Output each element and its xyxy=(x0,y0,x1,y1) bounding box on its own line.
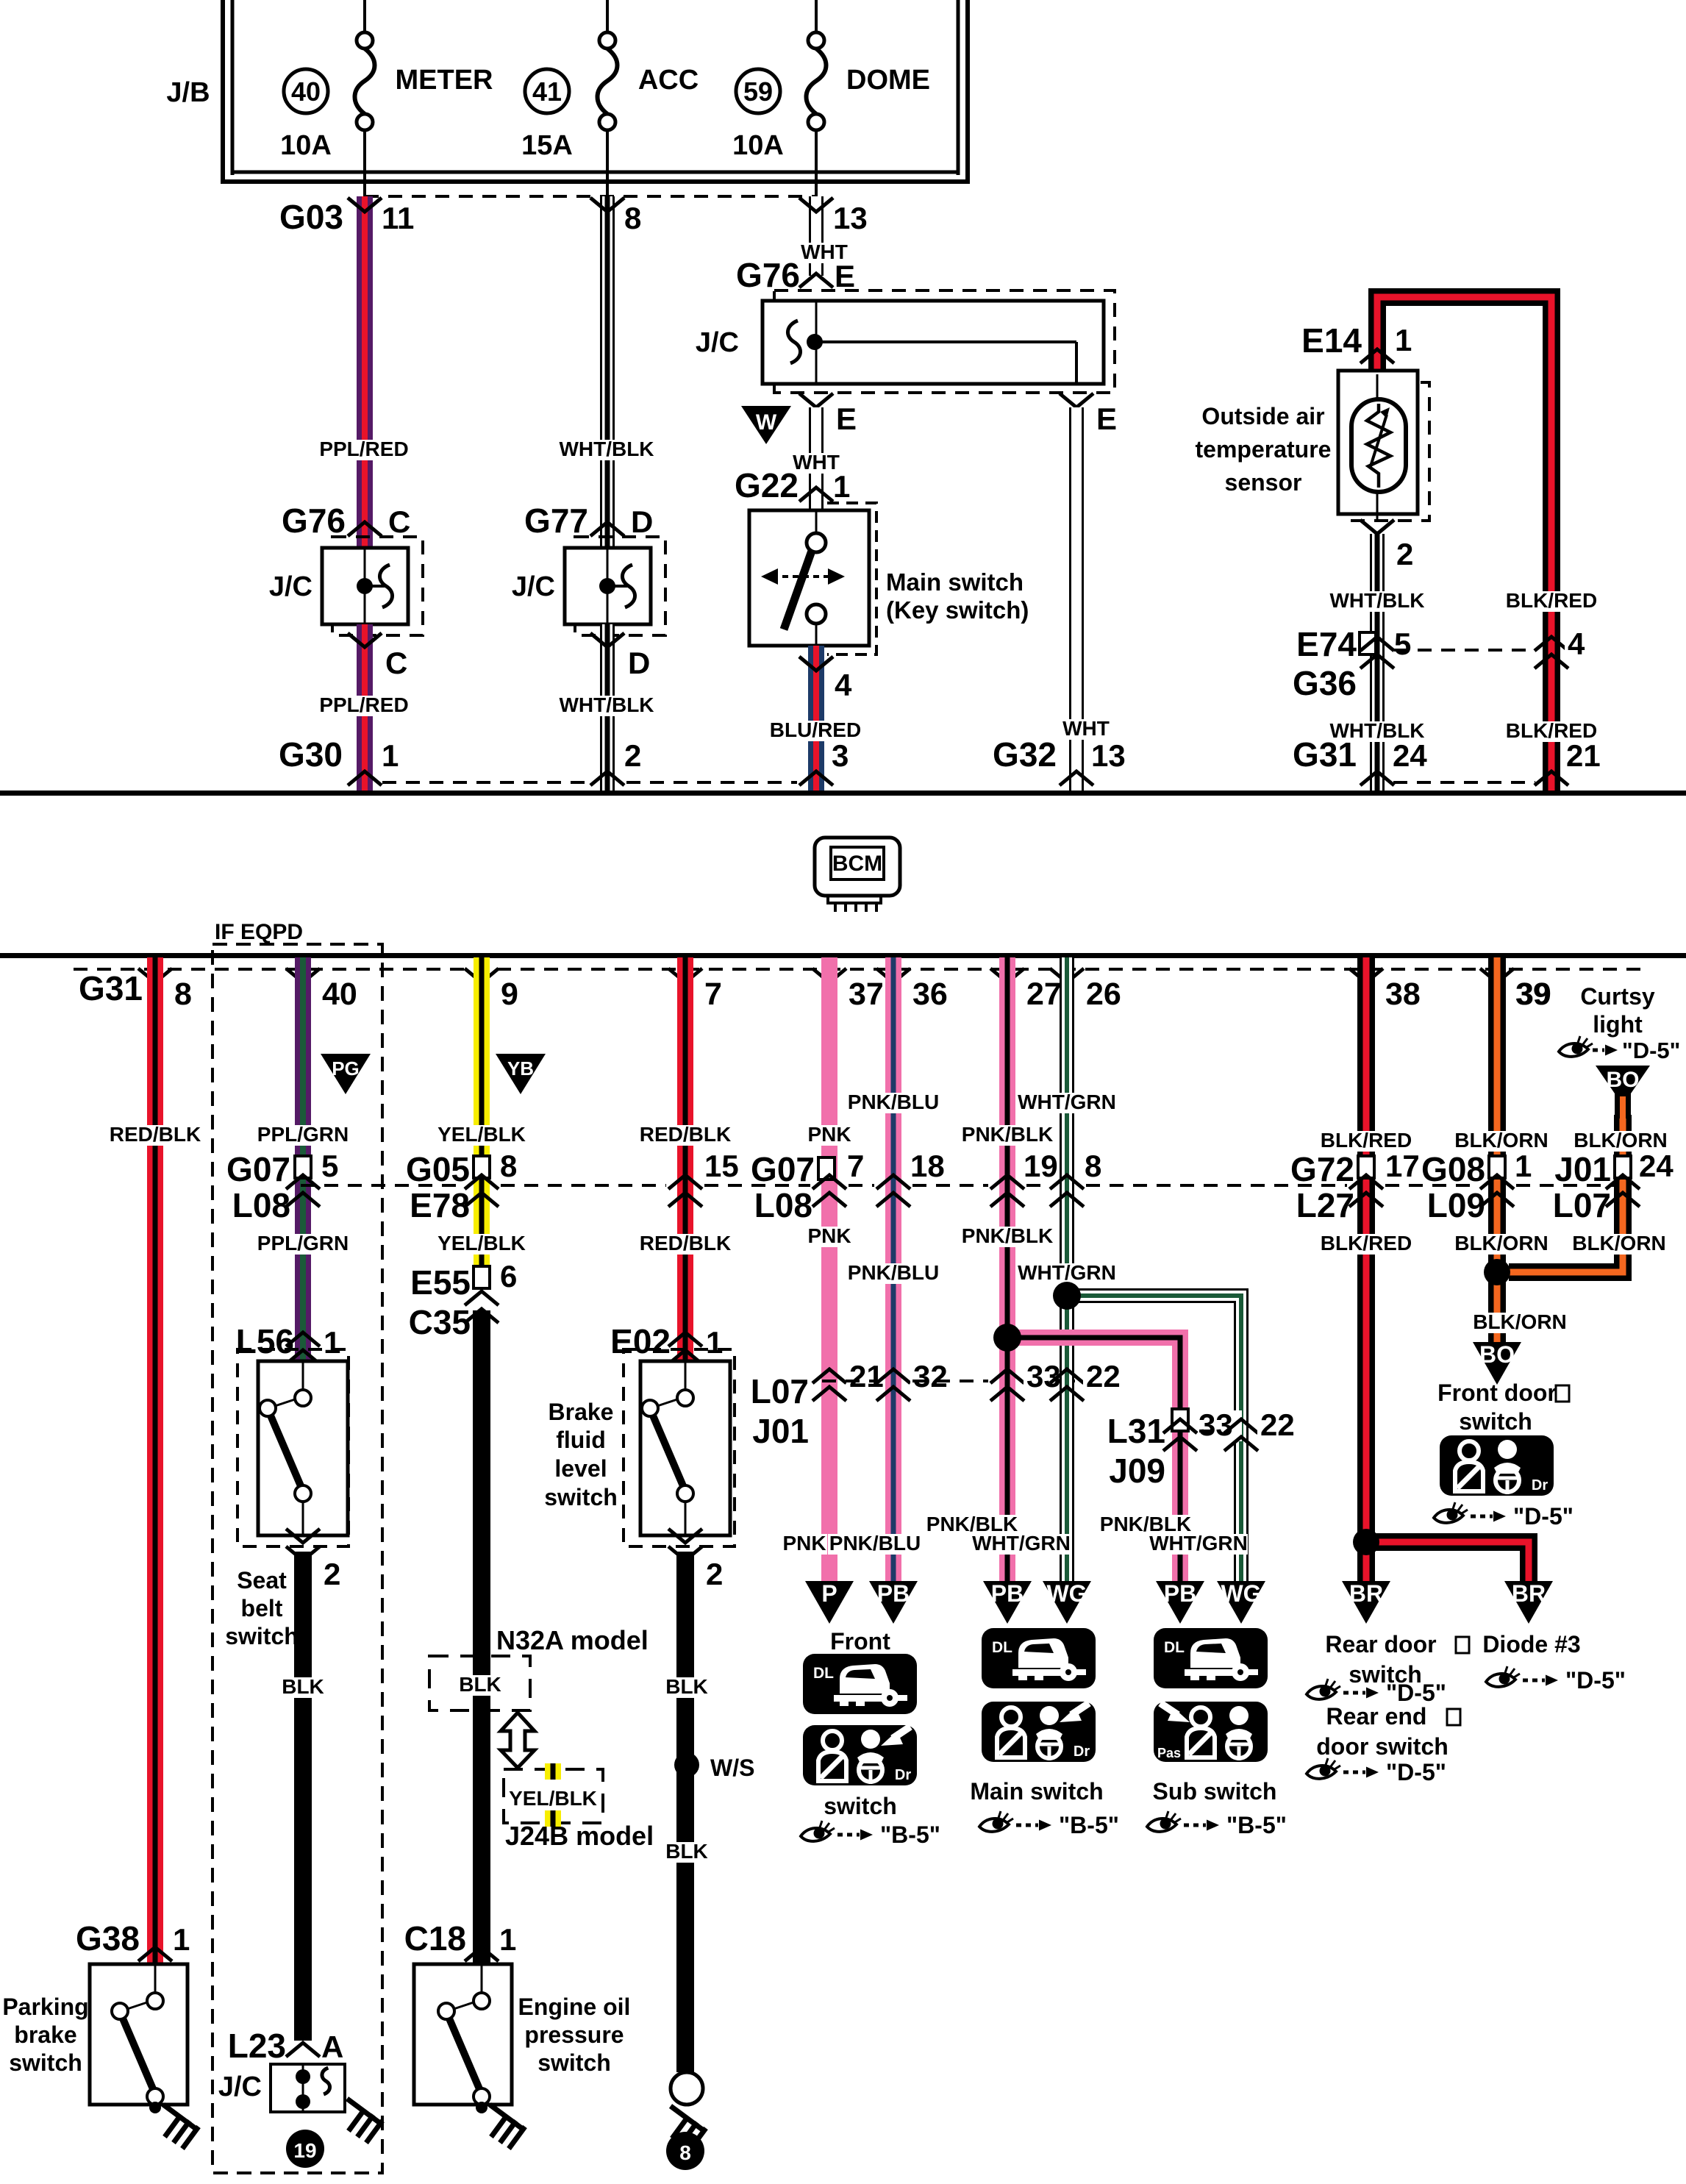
branch wire PNK/BLK to sub switch xyxy=(1007,1338,1180,1581)
wire BLK/RED BCM-38 to BR with branch to diode xyxy=(1357,957,1375,1581)
svg-text:PNK/BLU: PNK/BLU xyxy=(848,1091,939,1113)
svg-text:PNK/BLU: PNK/BLU xyxy=(829,1532,921,1555)
destination arrow BO (front door switch) xyxy=(1473,1342,1521,1385)
svg-text:sensor: sensor xyxy=(1225,469,1302,496)
wire PNK/BLU BCM-36 to PB xyxy=(885,957,901,1581)
option swap arrow xyxy=(501,1713,535,1768)
svg-text:L27: L27 xyxy=(1296,1186,1354,1224)
destination arrow WG (main switch) xyxy=(1043,1581,1091,1624)
wire BLK/RED battery loop to E14-1 xyxy=(1377,297,1551,791)
svg-text:E02: E02 xyxy=(610,1322,671,1360)
svg-text:WHT/GRN: WHT/GRN xyxy=(972,1532,1071,1555)
svg-text:BLK: BLK xyxy=(665,1840,708,1863)
svg-text:C: C xyxy=(385,646,407,680)
destination arrow WG (sub switch) xyxy=(1217,1581,1265,1624)
svg-text:37: 37 xyxy=(849,977,884,1012)
junction splice PNK/BLK xyxy=(993,1324,1021,1352)
destination arrow BR (diode 3) xyxy=(1504,1581,1553,1624)
wire RED/BLK BCM-7 to E02-1 xyxy=(677,957,693,1360)
svg-text:RED/BLK: RED/BLK xyxy=(640,1232,731,1255)
fuse 41 ACC 15A xyxy=(606,0,609,32)
svg-text:10A: 10A xyxy=(732,130,784,161)
svg-text:PNK/BLK: PNK/BLK xyxy=(962,1224,1053,1247)
svg-text:BR: BR xyxy=(1512,1580,1546,1607)
chevron overdraw G03/G30 rows xyxy=(348,198,382,212)
wire BLK/RED label xyxy=(1504,591,1599,612)
svg-text:8: 8 xyxy=(174,977,192,1012)
svg-text:22: 22 xyxy=(1086,1359,1121,1393)
svg-text:BO: BO xyxy=(1479,1341,1515,1368)
svg-text:PPL/RED: PPL/RED xyxy=(319,693,408,716)
svg-text:"D-5": "D-5" xyxy=(1565,1667,1626,1694)
svg-text:"B-5": "B-5" xyxy=(1226,1812,1287,1838)
svg-text:WHT/GRN: WHT/GRN xyxy=(1018,1261,1116,1284)
svg-text:switch: switch xyxy=(1459,1408,1532,1435)
svg-text:DOME: DOME xyxy=(846,65,930,96)
svg-text:1: 1 xyxy=(382,738,399,773)
svg-text:21: 21 xyxy=(849,1359,884,1393)
wire WHT/BLK G77-D to G30-2 xyxy=(600,624,615,791)
svg-text:YEL/BLK: YEL/BLK xyxy=(437,1123,526,1146)
svg-text:BLK/RED: BLK/RED xyxy=(1321,1232,1412,1255)
svg-text:1: 1 xyxy=(1515,1149,1532,1183)
ground 19 xyxy=(286,2130,324,2168)
section divider line 1 xyxy=(0,791,1686,796)
svg-text:WG: WG xyxy=(1046,1580,1087,1607)
svg-text:24: 24 xyxy=(1639,1149,1674,1183)
svg-text:level: level xyxy=(554,1455,607,1482)
svg-text:YB: YB xyxy=(507,1057,534,1079)
svg-text:10A: 10A xyxy=(280,130,332,161)
destination arrow PB (sub switch) xyxy=(1156,1581,1204,1624)
svg-text:J/C: J/C xyxy=(218,2071,262,2102)
wire BLK L56-2 to L23-A xyxy=(294,1552,312,2041)
svg-text:2: 2 xyxy=(1396,537,1413,571)
svg-text:PNK/BLU: PNK/BLU xyxy=(848,1261,939,1284)
svg-text:belt: belt xyxy=(241,1595,283,1621)
svg-text:"B-5": "B-5" xyxy=(1059,1812,1119,1838)
svg-text:G31: G31 xyxy=(1293,735,1357,774)
svg-text:pressure: pressure xyxy=(524,2021,624,2048)
splice W/S xyxy=(674,1752,699,1777)
svg-text:13: 13 xyxy=(1091,738,1126,773)
svg-text:"D-5": "D-5" xyxy=(1513,1503,1574,1530)
wire RED/BLK BCM-8 to G38-1 xyxy=(147,957,163,1963)
svg-text:G31: G31 xyxy=(79,969,143,1007)
source arrow BO (curtsy light) xyxy=(1596,1066,1650,1118)
connector G31 row below BCM xyxy=(74,968,1647,971)
svg-text:switch: switch xyxy=(824,1793,897,1819)
svg-text:26: 26 xyxy=(1086,977,1121,1012)
svg-text:G38: G38 xyxy=(76,1919,140,1958)
svg-text:L31: L31 xyxy=(1107,1412,1165,1450)
svg-text:L08: L08 xyxy=(232,1186,290,1224)
wire WHT fuse59 to G76-E xyxy=(809,196,824,276)
junction splice BLK/ORN xyxy=(1484,1259,1510,1285)
svg-text:G30: G30 xyxy=(279,735,343,774)
wire PPL/GRN BCM-40 to L56-1 xyxy=(295,957,311,1360)
svg-text:"B-5": "B-5" xyxy=(880,1821,940,1848)
connector pin 33 xyxy=(990,1369,1024,1383)
svg-text:1: 1 xyxy=(833,469,850,504)
svg-text:L56: L56 xyxy=(236,1322,294,1360)
svg-text:Seat: Seat xyxy=(237,1567,287,1594)
svg-text:G22: G22 xyxy=(735,466,799,504)
svg-text:Rear end: Rear end xyxy=(1326,1703,1427,1730)
svg-text:J/C: J/C xyxy=(269,571,312,602)
connector pin 22 xyxy=(1050,1369,1084,1383)
svg-text:21: 21 xyxy=(1566,738,1601,773)
svg-text:PPL/GRN: PPL/GRN xyxy=(257,1123,349,1146)
connector pin 18 xyxy=(876,1175,910,1189)
svg-text:switch: switch xyxy=(537,2049,611,2076)
svg-text:Dr: Dr xyxy=(895,1767,911,1783)
svg-text:E78: E78 xyxy=(410,1186,470,1224)
svg-text:Diode #3: Diode #3 xyxy=(1482,1631,1580,1657)
wire BLU/RED G22-4 to G30-3 xyxy=(808,646,824,791)
svg-text:33: 33 xyxy=(1199,1407,1233,1442)
svg-text:Main switch: Main switch xyxy=(970,1778,1103,1805)
svg-text:WHT: WHT xyxy=(1062,717,1110,740)
destination arrow BR (rear door switch) xyxy=(1342,1581,1390,1624)
svg-text:IF EQPD: IF EQPD xyxy=(215,920,303,944)
svg-text:BLK: BLK xyxy=(459,1673,501,1696)
svg-text:2: 2 xyxy=(324,1557,340,1591)
svg-text:L07: L07 xyxy=(1553,1186,1611,1224)
svg-text:switch: switch xyxy=(9,2049,82,2076)
svg-text:Dr: Dr xyxy=(1074,1744,1090,1760)
connector pin 15 xyxy=(701,1152,748,1182)
svg-text:switch: switch xyxy=(544,1484,618,1510)
svg-text:J/C: J/C xyxy=(512,571,555,602)
svg-text:C35: C35 xyxy=(409,1303,471,1341)
svg-text:Dr: Dr xyxy=(1532,1477,1548,1494)
svg-text:N32A model: N32A model xyxy=(496,1625,649,1655)
svg-text:RED/BLK: RED/BLK xyxy=(640,1123,731,1146)
svg-text:WHT/GRN: WHT/GRN xyxy=(1018,1091,1116,1113)
svg-text:G07: G07 xyxy=(751,1150,815,1188)
svg-text:J/C: J/C xyxy=(696,327,739,358)
svg-text:PPL/RED: PPL/RED xyxy=(319,438,408,460)
svg-text:Brake: Brake xyxy=(549,1399,614,1425)
svg-text:PB: PB xyxy=(877,1580,910,1607)
wire WHT G76-E to G22-1 xyxy=(809,407,824,510)
svg-text:15: 15 xyxy=(704,1149,739,1183)
svg-text:J01: J01 xyxy=(752,1412,809,1450)
svg-text:PPL/GRN: PPL/GRN xyxy=(257,1232,349,1255)
svg-text:Outside air: Outside air xyxy=(1201,403,1324,429)
svg-text:8: 8 xyxy=(500,1149,517,1183)
svg-text:E: E xyxy=(1096,402,1117,436)
svg-text:7: 7 xyxy=(847,1149,864,1183)
wire PNK/BLK BCM-27 to PB with branch xyxy=(999,957,1015,1581)
svg-text:door switch: door switch xyxy=(1316,1733,1449,1760)
branch wire WHT/GRN to sub switch xyxy=(1067,1296,1241,1581)
svg-text:(Key switch): (Key switch) xyxy=(886,596,1029,624)
svg-text:8: 8 xyxy=(624,201,641,235)
svg-text:11: 11 xyxy=(382,201,414,235)
svg-text:DL: DL xyxy=(813,1665,834,1682)
svg-text:PNK: PNK xyxy=(807,1123,851,1146)
svg-text:E55: E55 xyxy=(410,1263,471,1302)
svg-text:9: 9 xyxy=(501,977,518,1012)
svg-text:BLK/ORN: BLK/ORN xyxy=(1574,1129,1668,1152)
svg-text:J24B model: J24B model xyxy=(505,1821,654,1851)
svg-text:Front door: Front door xyxy=(1437,1380,1557,1406)
svg-text:switch: switch xyxy=(225,1623,299,1649)
svg-text:1: 1 xyxy=(173,1922,190,1957)
svg-text:fluid: fluid xyxy=(556,1427,606,1453)
dashed connector row L07/J01 xyxy=(822,1380,874,1382)
dashed connector row G07-L08 / G72-L27 / G08-L09 / J01-L07 xyxy=(301,1184,462,1187)
svg-text:"D-5": "D-5" xyxy=(1386,1759,1446,1785)
wire PNK BCM-37 to P xyxy=(821,957,837,1581)
svg-text:PG: PG xyxy=(332,1057,360,1079)
svg-text:WHT/GRN: WHT/GRN xyxy=(1149,1532,1248,1555)
svg-text:38: 38 xyxy=(1385,977,1421,1012)
main switch icons xyxy=(982,1628,1096,1688)
svg-text:"D-5": "D-5" xyxy=(1622,1038,1680,1063)
svg-text:YEL/BLK: YEL/BLK xyxy=(437,1232,526,1255)
BCM module xyxy=(815,838,900,896)
wire WHT/BLK fuse41 to G77-D xyxy=(600,196,615,546)
svg-text:BR: BR xyxy=(1349,1580,1383,1607)
svg-text:C: C xyxy=(388,504,410,539)
svg-text:1: 1 xyxy=(499,1922,516,1957)
svg-text:41: 41 xyxy=(532,76,562,107)
svg-text:Curtsy: Curtsy xyxy=(1580,983,1655,1010)
svg-text:D: D xyxy=(631,504,653,539)
svg-text:BLK/RED: BLK/RED xyxy=(1506,589,1597,612)
svg-text:1: 1 xyxy=(324,1325,340,1360)
svg-text:40: 40 xyxy=(291,76,321,107)
svg-text:13: 13 xyxy=(833,201,868,235)
wire PPL/RED G76-C to G30-1 xyxy=(357,624,373,791)
svg-text:Front: Front xyxy=(830,1628,890,1655)
svg-text:G08: G08 xyxy=(1421,1150,1485,1188)
junction block J/B xyxy=(221,0,225,184)
svg-text:J09: J09 xyxy=(1109,1452,1165,1490)
connector pin 19 xyxy=(990,1175,1024,1189)
svg-text:WHT/BLK: WHT/BLK xyxy=(559,693,654,716)
svg-text:Pas: Pas xyxy=(1157,1746,1181,1760)
sub switch icons xyxy=(1154,1628,1268,1688)
svg-text:BCM: BCM xyxy=(832,852,882,876)
svg-text:PNK: PNK xyxy=(807,1224,851,1247)
svg-text:Parking: Parking xyxy=(2,1994,88,2020)
destination arrow PG xyxy=(321,1054,371,1094)
wire BLK/ORN from curtsy light feed xyxy=(1509,1115,1623,1272)
svg-text:J/B: J/B xyxy=(166,77,210,108)
wire WHT/BLK E14-2 to G31-24 xyxy=(1370,534,1385,791)
svg-text:17: 17 xyxy=(1385,1149,1420,1183)
wire BLK/ORN BCM-39 to BO xyxy=(1488,957,1506,1342)
wire WHT G76-E to G32-13 xyxy=(1069,407,1084,791)
svg-text:G05: G05 xyxy=(406,1150,470,1188)
option note J24B model / YEL/BLK xyxy=(504,1769,603,1823)
svg-text:BLK/ORN: BLK/ORN xyxy=(1454,1129,1549,1152)
svg-text:D: D xyxy=(628,646,650,680)
svg-text:G07: G07 xyxy=(226,1150,290,1188)
svg-text:G36: G36 xyxy=(1293,664,1357,702)
svg-text:Sub switch: Sub switch xyxy=(1153,1778,1277,1805)
svg-text:15A: 15A xyxy=(521,130,573,161)
wire YEL/BLK BCM-9 to E55/C35 xyxy=(474,957,490,1290)
svg-text:brake: brake xyxy=(14,2021,76,2048)
fuse 40 METER 10A xyxy=(363,0,366,32)
svg-text:19: 19 xyxy=(1024,1149,1058,1183)
svg-text:RED/BLK: RED/BLK xyxy=(110,1123,201,1146)
svg-text:PB: PB xyxy=(991,1580,1024,1607)
svg-text:G76: G76 xyxy=(282,502,346,540)
branch wire BLK/RED to diode 3 xyxy=(1366,1542,1529,1581)
dashed connector line G30 xyxy=(382,781,588,784)
svg-text:YEL/BLK: YEL/BLK xyxy=(509,1787,597,1810)
svg-text:Engine oil: Engine oil xyxy=(518,1994,631,2020)
svg-text:1: 1 xyxy=(706,1325,723,1360)
destination arrow PB (front switch) xyxy=(869,1581,918,1624)
svg-text:DL: DL xyxy=(992,1639,1012,1656)
wire BLK E55/C35 to C18-1 xyxy=(473,1310,490,1963)
svg-text:Main switch: Main switch xyxy=(886,568,1024,596)
svg-text:4: 4 xyxy=(1568,627,1585,661)
svg-text:"D-5": "D-5" xyxy=(1386,1680,1446,1706)
svg-text:BLK/ORN: BLK/ORN xyxy=(1572,1232,1666,1255)
svg-text:32: 32 xyxy=(913,1359,948,1393)
svg-text:P: P xyxy=(821,1580,837,1607)
junction splice WHT/GRN xyxy=(1053,1282,1081,1310)
svg-text:E74: E74 xyxy=(1296,625,1357,663)
svg-text:G76: G76 xyxy=(736,256,800,294)
svg-text:C18: C18 xyxy=(404,1919,466,1958)
svg-text:METER: METER xyxy=(396,65,493,96)
svg-text:E: E xyxy=(835,259,855,293)
svg-text:27: 27 xyxy=(1026,977,1062,1012)
svg-text:BLK/ORN: BLK/ORN xyxy=(1473,1310,1567,1333)
svg-text:PB: PB xyxy=(1164,1580,1196,1607)
svg-text:light: light xyxy=(1593,1011,1643,1038)
connector pin 32 xyxy=(876,1369,910,1383)
svg-text:Rear door: Rear door xyxy=(1325,1631,1436,1657)
svg-text:BO: BO xyxy=(1607,1068,1640,1092)
svg-text:L07: L07 xyxy=(751,1372,809,1410)
destination arrow W xyxy=(741,406,791,444)
svg-text:19: 19 xyxy=(293,2139,316,2162)
svg-text:8: 8 xyxy=(679,2141,691,2164)
svg-text:G72: G72 xyxy=(1290,1150,1354,1188)
svg-text:36: 36 xyxy=(912,977,948,1012)
svg-text:G03: G03 xyxy=(279,198,343,236)
svg-text:6: 6 xyxy=(500,1259,517,1293)
svg-text:4: 4 xyxy=(835,668,852,702)
svg-text:7: 7 xyxy=(704,977,722,1012)
svg-text:L09: L09 xyxy=(1427,1186,1485,1224)
svg-text:2: 2 xyxy=(624,738,641,773)
ground 8 xyxy=(671,2072,703,2105)
wire PPL/RED fuse40 to G76-C xyxy=(357,196,373,546)
svg-text:L08: L08 xyxy=(754,1186,812,1224)
connector pin 8 xyxy=(1050,1175,1084,1189)
svg-text:PNK: PNK xyxy=(782,1532,826,1555)
connector G03 row xyxy=(365,195,816,198)
svg-text:40: 40 xyxy=(322,977,357,1012)
svg-text:1: 1 xyxy=(1395,323,1412,357)
wire WHT/GRN BCM-26 to WG with branch xyxy=(1060,957,1074,1581)
junction splice BLK/RED xyxy=(1353,1529,1379,1555)
svg-text:J01: J01 xyxy=(1554,1150,1611,1188)
svg-text:L23: L23 xyxy=(228,2027,286,2065)
svg-text:24: 24 xyxy=(1393,738,1427,773)
svg-text:3: 3 xyxy=(832,738,849,773)
svg-text:2: 2 xyxy=(706,1557,723,1591)
section divider line 2 xyxy=(0,953,1686,958)
svg-text:E14: E14 xyxy=(1301,321,1362,360)
svg-text:PNK/BLK: PNK/BLK xyxy=(962,1123,1053,1146)
destination arrow P (front switch) xyxy=(805,1581,854,1624)
svg-text:G32: G32 xyxy=(993,735,1057,774)
svg-text:DL: DL xyxy=(1164,1639,1185,1656)
svg-text:BLK: BLK xyxy=(282,1675,324,1698)
svg-text:BLK/ORN: BLK/ORN xyxy=(1454,1232,1549,1255)
svg-text:5: 5 xyxy=(1394,627,1411,661)
svg-text:WHT/BLK: WHT/BLK xyxy=(559,438,654,460)
svg-text:WHT/BLK: WHT/BLK xyxy=(1329,589,1424,612)
svg-text:22: 22 xyxy=(1260,1407,1295,1442)
svg-text:18: 18 xyxy=(910,1149,945,1183)
svg-text:39: 39 xyxy=(1515,977,1551,1012)
destination arrow YB xyxy=(496,1054,546,1094)
destination arrow PB (main switch) xyxy=(983,1581,1032,1624)
svg-text:A: A xyxy=(321,2030,343,2064)
wire BLK E02-2 to ground 8 xyxy=(676,1552,694,2072)
svg-text:8: 8 xyxy=(1085,1149,1101,1183)
svg-text:59: 59 xyxy=(743,76,773,107)
svg-text:W: W xyxy=(756,410,777,435)
svg-text:WG: WG xyxy=(1221,1580,1261,1607)
svg-text:E: E xyxy=(836,402,857,436)
svg-text:5: 5 xyxy=(321,1149,338,1183)
svg-text:BLK: BLK xyxy=(665,1675,708,1698)
svg-text:G77: G77 xyxy=(524,502,588,540)
svg-text:ACC: ACC xyxy=(638,65,699,96)
front door switch icon xyxy=(1440,1435,1554,1496)
fuse 59 DOME 10A xyxy=(815,0,818,32)
svg-text:W/S: W/S xyxy=(710,1755,754,1781)
svg-text:temperature: temperature xyxy=(1196,436,1332,463)
